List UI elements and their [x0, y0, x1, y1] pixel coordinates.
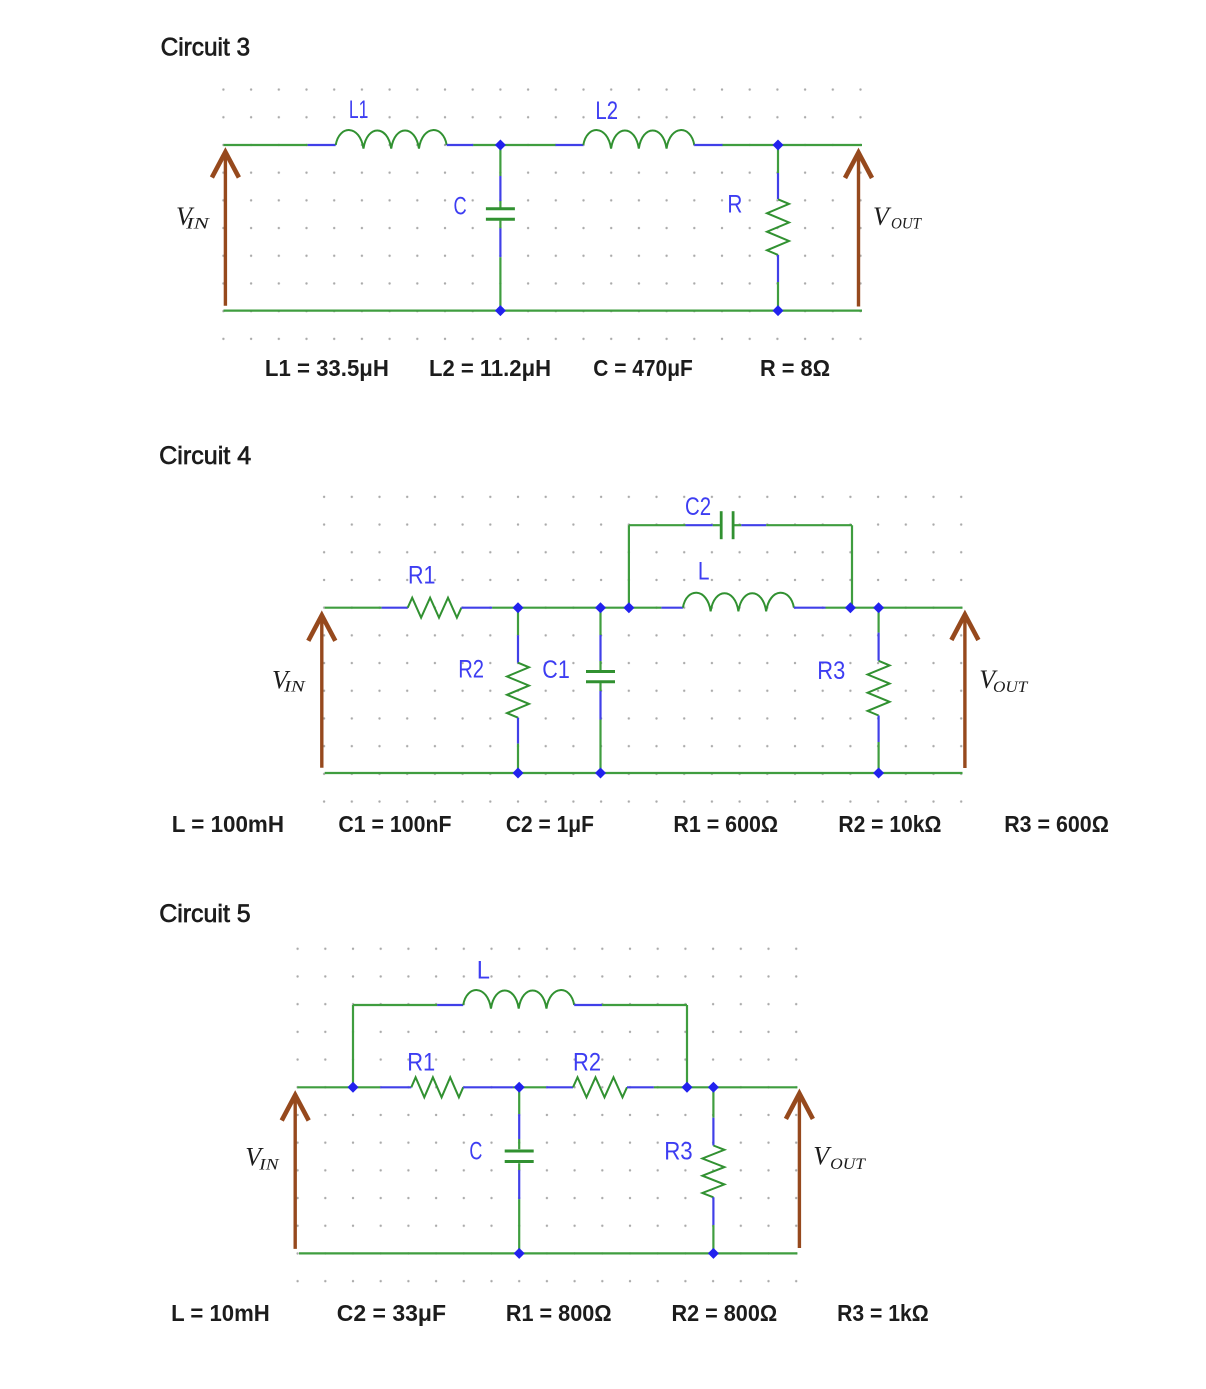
svg-text:R2: R2 [573, 1049, 601, 1077]
svg-text:R1 = 800Ω: R1 = 800Ω [506, 1300, 612, 1326]
svg-text:OUT: OUT [891, 216, 922, 233]
svg-text:OUT: OUT [830, 1156, 866, 1173]
svg-text:R = 8Ω: R = 8Ω [760, 355, 830, 381]
svg-text:C2 = 33μF: C2 = 33μF [337, 1300, 446, 1326]
svg-text:R3 = 1kΩ: R3 = 1kΩ [837, 1300, 929, 1326]
svg-text:C = 470μF: C = 470μF [593, 355, 693, 381]
svg-text:L1: L1 [349, 96, 369, 124]
svg-text:C: C [454, 193, 467, 221]
svg-text:R3: R3 [664, 1138, 693, 1166]
svg-text:L = 10mH: L = 10mH [171, 1300, 270, 1326]
svg-text:C1 = 100nF: C1 = 100nF [338, 811, 451, 837]
svg-text:R2 = 10kΩ: R2 = 10kΩ [838, 811, 941, 837]
svg-text:R1: R1 [408, 562, 436, 590]
svg-text:Circuit 3: Circuit 3 [161, 33, 251, 61]
svg-text:Circuit 4: Circuit 4 [159, 442, 251, 470]
svg-text:IN: IN [258, 1157, 280, 1174]
svg-text:R3: R3 [817, 657, 845, 685]
svg-text:OUT: OUT [993, 679, 1028, 696]
svg-text:L1 = 33.5μH: L1 = 33.5μH [265, 355, 389, 381]
svg-text:L2 = 11.2μH: L2 = 11.2μH [429, 355, 551, 381]
svg-text:V: V [873, 202, 892, 231]
svg-text:R1: R1 [407, 1049, 435, 1077]
svg-text:IN: IN [185, 216, 211, 233]
svg-text:L = 100mH: L = 100mH [172, 811, 284, 837]
svg-text:L: L [698, 558, 710, 586]
svg-text:C2: C2 [685, 493, 711, 521]
svg-text:C2 = 1μF: C2 = 1μF [506, 811, 594, 837]
svg-text:C1: C1 [542, 656, 570, 684]
svg-text:R3 = 600Ω: R3 = 600Ω [1004, 811, 1109, 837]
svg-text:Circuit 5: Circuit 5 [159, 900, 251, 928]
svg-text:R1 = 600Ω: R1 = 600Ω [673, 811, 778, 837]
svg-text:C: C [469, 1138, 482, 1166]
svg-text:L: L [477, 957, 490, 985]
svg-text:IN: IN [283, 679, 307, 696]
svg-text:R: R [727, 191, 742, 219]
svg-text:R2: R2 [458, 655, 484, 683]
svg-text:L2: L2 [595, 97, 618, 125]
svg-text:R2 = 800Ω: R2 = 800Ω [672, 1300, 778, 1326]
